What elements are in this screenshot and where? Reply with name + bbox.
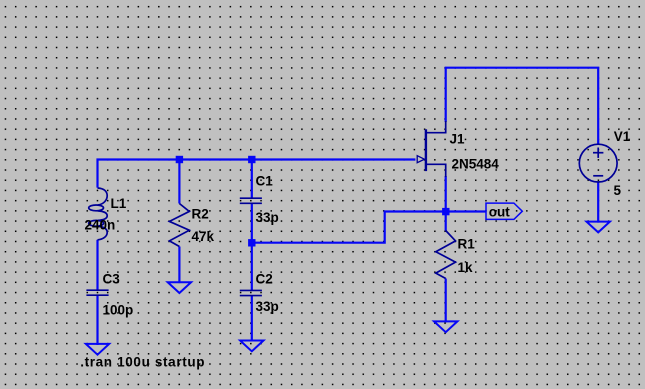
svg-text:1k: 1k <box>458 260 474 275</box>
svg-text:C3: C3 <box>103 272 121 287</box>
svg-text:R2: R2 <box>192 207 209 222</box>
svg-text:L1: L1 <box>111 196 127 211</box>
svg-text:5: 5 <box>614 183 622 198</box>
wire R1 bottom to ground <box>445 279 447 323</box>
V1 plus sign <box>593 148 603 158</box>
svg-text:2N5484: 2N5484 <box>452 157 500 172</box>
wire R1 top <box>445 212 447 231</box>
wire C3 bottom to ground <box>96 295 98 345</box>
capacitor C1 plates <box>240 198 262 203</box>
wire feedback mid: C2 top junction to source junction <box>252 212 443 243</box>
ground flag under R2 <box>168 282 191 293</box>
svg-text:.tran 100u startup: .tran 100u startup <box>80 354 205 369</box>
svg-text:100p: 100p <box>103 303 134 318</box>
wire C2 bottom to ground <box>251 296 253 342</box>
svg-text:V1: V1 <box>614 129 631 144</box>
ground flag under R1 <box>434 321 457 332</box>
resistor R1 body <box>436 231 456 279</box>
junction node rail-R2 <box>176 156 183 163</box>
svg-text:C2: C2 <box>256 272 273 287</box>
J1 gate arrow <box>417 156 424 163</box>
capacitor C2 plates <box>240 290 262 295</box>
wire top rail from L1 top to J1 gate <box>98 160 416 188</box>
svg-text:240n: 240n <box>85 218 116 233</box>
wire R2 bottom to ground <box>178 247 180 284</box>
J1 drain lead <box>426 121 446 133</box>
svg-text:33p: 33p <box>256 210 279 225</box>
wire C1 bottom to C2 top <box>251 203 253 290</box>
out net flag <box>486 203 522 219</box>
svg-text:R1: R1 <box>458 237 476 252</box>
J1 source lead <box>426 164 446 177</box>
ground flag under C3 <box>86 344 109 355</box>
junction node out <box>442 208 449 215</box>
svg-text:33p: 33p <box>256 299 279 314</box>
wire J1 source down to out junction <box>445 176 447 213</box>
junction node rail-C1 <box>248 156 255 163</box>
svg-text:C1: C1 <box>256 174 274 189</box>
wire V1 bottom to ground <box>597 182 599 223</box>
svg-text:J1: J1 <box>450 132 466 147</box>
ground flag under V1 <box>587 222 610 233</box>
wire J1 drain to V1 top <box>446 68 599 145</box>
wire C1 top <box>251 160 253 199</box>
transistor J1 channel bar <box>425 129 427 171</box>
wire L1 bottom to C3 top <box>96 240 98 290</box>
V1 minus sign <box>593 175 603 177</box>
voltage source V1 circle <box>579 144 617 182</box>
wire R2 top <box>178 160 180 204</box>
svg-text:out: out <box>489 204 510 219</box>
resistor R2 body <box>169 204 189 247</box>
capacitor C3 plates <box>86 290 108 295</box>
svg-text:47k: 47k <box>192 229 215 244</box>
wire out junction to out flag <box>446 210 486 212</box>
junction node C1-C2 feedback <box>248 239 255 246</box>
ground flag under C2 <box>240 341 263 352</box>
inductor L1 body <box>89 188 108 240</box>
